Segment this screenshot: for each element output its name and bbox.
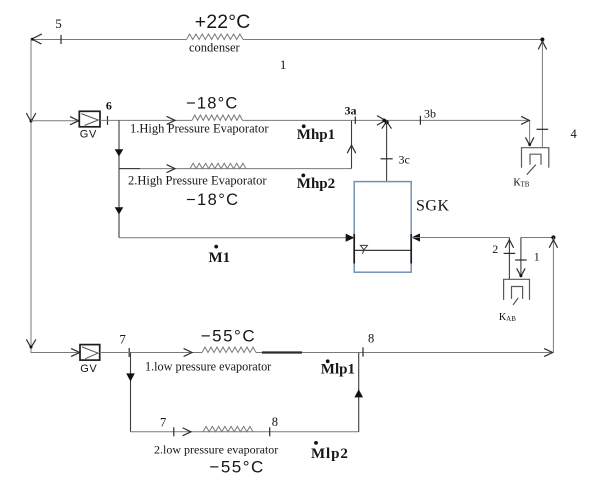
tick on right vertical	[537, 128, 549, 130]
node 3b tick	[419, 116, 421, 125]
label Mhp2 dot	[301, 174, 305, 178]
svg-text:condenser: condenser	[189, 41, 241, 55]
svg-text:−55°C: −55°C	[209, 457, 264, 476]
svg-text:SGK: SGK	[416, 198, 450, 215]
arrow right at end of LP line 1	[545, 349, 553, 357]
arrow down into KAB	[517, 269, 525, 277]
arrow right big at 3c junction	[377, 116, 385, 125]
wire KAB suction vertical	[520, 238, 522, 276]
arrow up on riser	[347, 145, 355, 153]
wire HP line 2 dark start	[119, 168, 140, 170]
arrow up at top of right vertical	[538, 41, 546, 49]
SGK right edge dark segment	[410, 234, 412, 264]
node 7 tick LP2	[173, 427, 175, 436]
svg-text:3c: 3c	[399, 153, 410, 167]
compressor KTB symbol	[522, 148, 549, 175]
wire HP line 1 right segment	[243, 119, 530, 121]
wire far right vertical	[552, 238, 554, 353]
wire LP line 1 left segment	[100, 352, 202, 354]
arrow left filled into SGK right side	[411, 233, 420, 241]
wire HP line 1 left segment	[100, 119, 192, 121]
svg-text:7: 7	[119, 331, 126, 346]
wire LP line 1 right segment	[256, 352, 553, 354]
arrow right into valve GV1	[71, 117, 79, 125]
node 3a tick	[354, 117, 356, 125]
node 2 tick	[504, 252, 516, 254]
svg-text:3b: 3b	[424, 107, 436, 121]
svg-text:4: 4	[571, 127, 578, 141]
arrow down filled on HP drop lower	[115, 207, 124, 214]
svg-text:+22°C: +22°C	[195, 11, 251, 33]
svg-text:Mlp2: Mlp2	[311, 446, 349, 462]
arrow down on left vertical lower	[27, 340, 36, 348]
svg-text:8: 8	[272, 415, 278, 429]
arrow right on HP line 1	[167, 117, 175, 125]
svg-text:1.low pressure evaporator: 1.low pressure evaporator	[145, 360, 271, 374]
svg-text:2.High Pressure Evaporator: 2.High Pressure Evaporator	[128, 173, 267, 187]
arrow left at top-left corner	[32, 34, 42, 44]
svg-text:−55°C: −55°C	[201, 326, 256, 345]
condenser coil	[187, 34, 244, 40]
arrow up filled on LP riser	[354, 389, 363, 397]
label Mhp1 dot	[302, 124, 306, 128]
node 6 tick	[107, 116, 109, 125]
svg-text:−18°C: −18°C	[186, 95, 239, 113]
arrow right on LP line 1	[184, 349, 192, 357]
evaporator coil LP1	[202, 347, 256, 353]
arrow right on LP line 2	[183, 428, 191, 436]
arrow up from SGK at 3c junction	[382, 121, 391, 128]
valve GV1	[79, 111, 100, 127]
SGK left edge dark segment	[353, 234, 355, 264]
label Mlp2 dot	[314, 441, 318, 445]
node 5 tick	[60, 35, 62, 44]
junction dot right	[551, 235, 555, 239]
level mark nabla	[360, 245, 367, 253]
label Mlp1 dot	[326, 359, 330, 363]
svg-text:3a: 3a	[345, 104, 357, 118]
svg-text:2: 2	[492, 242, 498, 256]
wire feed to valve GV2	[31, 352, 80, 354]
arrow right filled into SGK	[346, 234, 355, 242]
evaporator coil HP1	[192, 115, 243, 120]
wire left vertical	[30, 40, 32, 354]
wire HP line 2	[119, 168, 352, 170]
svg-text:6: 6	[106, 99, 112, 113]
svg-text:1: 1	[534, 249, 540, 263]
arrow right on HP line 2	[167, 165, 175, 173]
wire HP drop vertical	[118, 120, 120, 237]
arrow down filled on HP drop upper	[115, 149, 124, 156]
svg-text:2.low pressure evaporator: 2.low pressure evaporator	[154, 442, 278, 456]
valve GV2	[80, 345, 100, 361]
arrow down filled on LP drop	[126, 373, 135, 381]
liquid level line in SGK	[354, 249, 411, 251]
arrow up on KAB discharge	[505, 240, 513, 248]
wire LP drop vertical	[130, 353, 132, 432]
label M1 dot	[214, 245, 218, 249]
svg-text:8: 8	[368, 331, 374, 345]
arrow down into KTB	[526, 138, 534, 146]
wire feed to valve GV1	[31, 120, 79, 122]
wire KAB suction top horizontal	[521, 237, 554, 239]
svg-text:Mlp1: Mlp1	[321, 361, 355, 377]
svg-text:1.High Pressure Evaporator: 1.High Pressure Evaporator	[130, 122, 269, 136]
arrow up on far right vertical	[549, 240, 557, 248]
wire LP line 2	[131, 431, 359, 433]
compressor KAB symbol	[504, 279, 530, 305]
svg-text:GV: GV	[80, 363, 97, 375]
wire right vertical from KTB to top line	[541, 40, 543, 148]
evaporator coil LP2	[203, 426, 253, 431]
wire LP line 1 thick dark segment	[262, 351, 302, 353]
wire KAB discharge vertical	[508, 238, 510, 280]
evaporator coil HP2	[190, 163, 246, 168]
wire top condenser line left segment	[31, 39, 187, 41]
node 7 tick LP1	[128, 348, 130, 357]
svg-text:7: 7	[160, 416, 166, 430]
node 1 tick lower	[515, 259, 527, 261]
wire corner down to compressor KTB	[529, 120, 531, 144]
svg-text:GV: GV	[80, 129, 97, 141]
svg-text:Mhp1: Mhp1	[297, 127, 335, 143]
svg-text:1: 1	[280, 57, 287, 72]
wire LP riser	[358, 353, 360, 432]
node 8 tick LP2	[269, 427, 271, 436]
wire M1 line	[119, 237, 352, 239]
node 8 tick LP1	[362, 347, 364, 356]
junction dot top right	[540, 38, 544, 42]
svg-text:−18°C: −18°C	[186, 191, 240, 209]
node 3c tick	[381, 158, 393, 160]
arrow down on left vertical upper	[27, 114, 36, 122]
svg-text:5: 5	[55, 16, 62, 31]
wire riser from HP line2 to node 3a	[351, 120, 353, 168]
svg-text:M1: M1	[209, 250, 231, 266]
wire from SGK to KAB	[411, 237, 509, 239]
wire top condenser line right segment	[243, 39, 542, 41]
arrow right before corner	[522, 117, 530, 125]
separator vessel SGK box	[354, 182, 411, 273]
svg-text:Mhp2: Mhp2	[297, 176, 335, 192]
wire 3c vertical into SGK	[386, 120, 388, 181]
arrow right into valve GV2	[72, 349, 80, 357]
